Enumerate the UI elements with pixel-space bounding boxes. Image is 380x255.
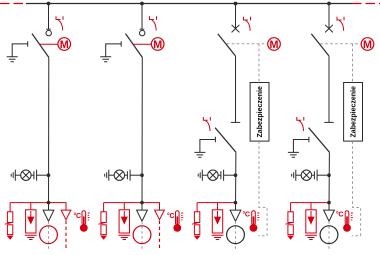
- voltage indicator bay3 mini earth electrode: [198, 170, 202, 181]
- bay1 manual trip lever: [56, 16, 63, 30]
- disconnector bay3 upper blade: [218, 34, 235, 56]
- motor drive M1: [58, 38, 71, 51]
- breaker bay3: [232, 25, 240, 33]
- voltage indicator bay3 capacitor: [218, 174, 221, 176]
- arrester F1 arrester body: [26, 210, 36, 233]
- thermometer bay1 scale ticks: [88, 213, 90, 220]
- earthing switch bay2: [106, 41, 122, 56]
- arrester F4 arrow: [310, 211, 312, 218]
- divider R3 lead: [196, 203, 198, 212]
- wire bay4 red measuring bus: [291, 202, 329, 204]
- thermometer bay2 stem: [176, 211, 180, 225]
- wire bay3 upper riser: [235, 56, 237, 123]
- thermometer bay4 stem: [345, 211, 349, 225]
- bay2 fixed contact: [140, 30, 145, 35]
- thermometer bay1 mercury: [83, 216, 85, 226]
- bay3 manual trip lever: [244, 17, 251, 31]
- bay3 sensor triangle: [230, 210, 241, 221]
- bay1 sensor triangle: [43, 210, 54, 221]
- busbar right stub (dashed red): [352, 3, 380, 5]
- arrester F3 lead: [217, 203, 219, 210]
- bay3 dashed drop to protection: [258, 44, 260, 83]
- divider R2 resistor element 2: [101, 225, 106, 235]
- motor drive M2: [151, 38, 164, 51]
- voltage indicator bay4 lamp: [301, 170, 311, 180]
- bay3 instrument circle: [227, 226, 245, 244]
- busbar: [26, 3, 352, 5]
- svg-text:°C: °C: [242, 210, 249, 218]
- divider R1 tap tick: [5, 223, 11, 225]
- divider R4 resistor element 1: [288, 212, 293, 223]
- bay2 manual trip lever: [150, 16, 157, 30]
- node bay1 measuring tap: [47, 201, 51, 205]
- thermometer bay2 bulb: [173, 224, 181, 232]
- arrester F2 lead: [123, 203, 125, 210]
- svg-text:°C: °C: [74, 212, 81, 220]
- busbar left stub (dashed red): [0, 3, 26, 5]
- arrester F3 arrester body: [212, 210, 222, 233]
- svg-text:°C: °C: [167, 212, 174, 220]
- svg-text:Zabezpieczenie: Zabezpieczenie: [257, 86, 264, 137]
- divider R1 lead: [9, 203, 11, 212]
- arrester F2 earth: [118, 235, 130, 239]
- arrester F3 arrow: [217, 211, 219, 218]
- bay4 manual trip lever: [337, 17, 344, 31]
- arrester F4 lead: [310, 203, 312, 210]
- wire bay4 upper riser: [328, 56, 330, 123]
- node bay4 bus tap: [327, 2, 331, 6]
- voltage indicator bay2 mini earth electrode: [105, 170, 109, 181]
- wire bay4 lower riser: [328, 152, 330, 210]
- svg-text:Zabezpieczenie: Zabezpieczenie: [350, 86, 357, 137]
- protection relay box bay3: [250, 83, 269, 142]
- wire bay1 red measuring bus: [10, 203, 66, 210]
- divider R1 resistor element 1: [7, 212, 12, 223]
- thermometer bay3 stem: [252, 211, 256, 225]
- wire bay1 riser: [48, 57, 50, 210]
- bay2 instrument circle: [133, 226, 151, 244]
- node bay2 measuring tap: [140, 201, 144, 205]
- bay4 lower fixed contact bar: [324, 121, 333, 123]
- voltage indicator bay1 wire to lamp: [15, 174, 20, 176]
- bay4 sensor triangle: [324, 210, 335, 221]
- bay1 red dashed link: [65, 221, 67, 250]
- thermometer bay3 bulb: [250, 224, 258, 232]
- thermometer bay3 mercury: [253, 216, 255, 226]
- divider R1 down arrow: [7, 236, 14, 240]
- bay3 protection dashed link: [227, 43, 268, 45]
- arrester F2 arrester body: [119, 210, 129, 233]
- thermometer bay3 scale ticks: [257, 213, 259, 220]
- voltage indicator bay4 wire to lamp: [296, 174, 301, 176]
- voltage indicator bay1 capacitor: [31, 174, 34, 176]
- earthing switch bay4: [293, 137, 309, 152]
- divider R3 tap tick: [192, 223, 198, 225]
- breaker bay4: [325, 25, 333, 33]
- wire bay4 from bus to breaker: [328, 4, 330, 29]
- wire bay3 lower riser: [235, 152, 237, 210]
- thermometer bay4 mercury: [346, 216, 348, 226]
- wire bay2 red measuring bus: [104, 203, 160, 210]
- wire bay1 from bus to disconnector: [48, 4, 50, 30]
- bay4 lower manual lever: [297, 117, 304, 131]
- arrester F1 arrow: [30, 211, 32, 218]
- voltage indicator bay2 wire to bay riser: [130, 174, 142, 176]
- wire bay2 from bus to disconnector: [141, 4, 143, 30]
- disconnector bay4 upper blade: [311, 34, 328, 56]
- voltage indicator bay1 mini earth electrode: [11, 170, 15, 181]
- node bay1 bus tap: [47, 2, 51, 6]
- thermometer bay2 mercury: [176, 216, 178, 226]
- bay4 instrument circle: [320, 226, 338, 244]
- bay2 sensor triangle: [137, 210, 148, 221]
- svg-text:M: M: [363, 39, 372, 51]
- node bay1 lamp tap: [47, 173, 51, 177]
- earthing switch bay3: [200, 137, 216, 152]
- arrester F1 earth: [25, 235, 37, 239]
- arrester F4 earth: [305, 235, 317, 239]
- voltage indicator bay1 lamp: [21, 170, 31, 180]
- divider R2 tap tick: [98, 223, 104, 225]
- disconnector bay4 lower blade: [309, 128, 330, 153]
- divider R2 down arrow: [100, 236, 107, 240]
- voltage indicator bay2 capacitor: [125, 174, 128, 176]
- node bay3 measuring tap: [234, 201, 238, 205]
- voltage indicator bay3 lamp: [208, 170, 218, 180]
- wire bay3 red measuring bus: [197, 202, 235, 204]
- divider R1 resistor element 2: [7, 225, 12, 235]
- disconnector Q1 blade: [32, 34, 49, 58]
- divider R4 resistor element 2: [288, 225, 293, 235]
- svg-text:M: M: [270, 39, 279, 51]
- divider R2 resistor element 1: [101, 212, 106, 223]
- node bay4 measuring tap: [327, 201, 331, 205]
- motor drive M3: [268, 38, 281, 51]
- arrester F2 arrow: [123, 211, 125, 218]
- bay2 trip triangle: [155, 210, 165, 220]
- voltage indicator bay4 capacitor: [312, 174, 315, 176]
- node bay2 bus tap: [140, 2, 144, 6]
- bay4 dashed link: [328, 221, 330, 250]
- wire bay3 from bus to breaker: [235, 4, 237, 29]
- disconnector bay3 lower blade: [215, 128, 236, 153]
- motor drive M4: [361, 38, 374, 51]
- divider R4 tap tick: [285, 223, 291, 225]
- svg-text:°C: °C: [336, 210, 343, 218]
- voltage indicator bay4 wire to bay riser: [317, 174, 329, 176]
- divider R3 down arrow: [194, 236, 201, 240]
- node bay2 lamp tap: [140, 173, 144, 177]
- voltage indicator bay3 wire to lamp: [202, 174, 207, 176]
- bay4 dashed drop to protection: [352, 44, 354, 83]
- bay1 instrument circle: [40, 226, 58, 244]
- wire bay2 motor link: [133, 43, 151, 45]
- protection relay box bay4: [344, 83, 363, 142]
- arrester F4 arrester body: [306, 210, 316, 233]
- thermometer bay1 stem: [82, 211, 86, 225]
- node bay4 lamp tap: [327, 173, 331, 177]
- bay2 red dashed link: [159, 221, 161, 250]
- wire bay2 riser: [141, 57, 143, 210]
- bay1 dashed link: [48, 221, 50, 250]
- bay3 dashed link to thermometer: [258, 141, 267, 235]
- earthing switch bay1: [12, 41, 28, 56]
- thermometer bay4 scale ticks: [351, 213, 353, 220]
- voltage indicator bay2 lamp: [114, 170, 124, 180]
- bay1 fixed contact: [46, 30, 51, 35]
- voltage indicator bay2 wire to lamp: [109, 174, 114, 176]
- node bay3 lamp tap: [234, 173, 238, 177]
- thermometer bay4 bulb: [343, 224, 351, 232]
- arrester F1 lead: [30, 203, 32, 210]
- bay1 fixed contact bar: [46, 28, 51, 30]
- voltage indicator bay1 wire to bay riser: [37, 174, 49, 176]
- svg-text:M: M: [60, 39, 69, 51]
- bay3 lower fixed contact bar: [231, 121, 240, 123]
- bay1 trip triangle: [61, 210, 71, 220]
- divider R4 lead: [290, 203, 292, 212]
- thermometer bay2 scale ticks: [181, 213, 183, 220]
- divider R2 lead: [103, 203, 105, 212]
- bay2 fixed contact bar: [140, 28, 145, 30]
- bay4 dashed link to thermometer: [352, 141, 361, 235]
- voltage indicator bay3 wire to bay riser: [224, 174, 236, 176]
- voltage indicator bay4 mini earth electrode: [292, 170, 296, 181]
- bay3 dashed link: [235, 221, 237, 250]
- node bay3 bus tap: [234, 2, 238, 6]
- divider R3 resistor element 2: [194, 225, 199, 235]
- wire bay1 motor link: [40, 43, 58, 45]
- arrester F3 earth: [212, 235, 224, 239]
- divider R3 resistor element 1: [194, 212, 199, 223]
- bay4 protection dashed link: [320, 43, 361, 45]
- svg-text:M: M: [153, 39, 162, 51]
- divider R4 down arrow: [287, 236, 294, 240]
- disconnector Q2 blade: [126, 34, 143, 58]
- thermometer bay1 bulb: [80, 224, 88, 232]
- bay3 lower manual lever: [203, 117, 210, 131]
- bay2 dashed link: [141, 221, 143, 250]
